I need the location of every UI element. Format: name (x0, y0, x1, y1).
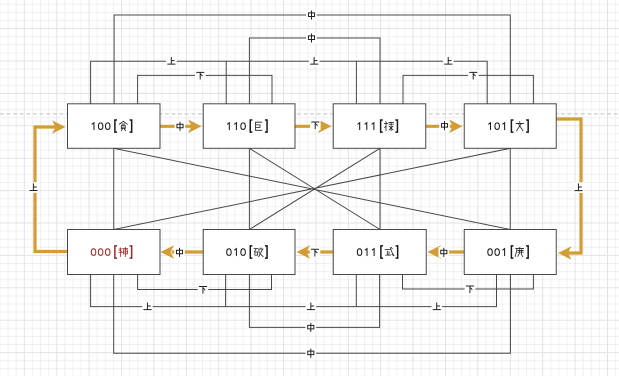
label 上 bottom c (432, 301, 443, 312)
vertical edge 100-000 (113, 148, 115, 229)
edge chain top (上) (91, 61, 488, 104)
label 中 orange 111->101 (439, 120, 450, 131)
label 中 top edge2 (306, 33, 317, 44)
state box 100 (68, 104, 161, 149)
label 上 bottom a (142, 301, 153, 312)
label 上 orange left (28, 182, 39, 193)
vertical edge 111-011 (379, 148, 381, 229)
state box 000 (68, 230, 161, 275)
edge 100-110 top (下) (138, 75, 272, 103)
label 下 orange 110->111 (310, 120, 321, 131)
label 上 top b (309, 56, 320, 67)
vertical edge 110-010 (248, 148, 250, 229)
label 中 orange 010->000 (174, 247, 185, 258)
vertical edge 101-001 (509, 148, 511, 229)
diagonal 100-001 (114, 148, 511, 229)
diagonal 110-011 (249, 148, 380, 229)
edge chain bottom (上) (91, 275, 497, 307)
label 下 bottom a (198, 284, 209, 295)
state box 101 (464, 104, 556, 149)
junction vertical 011 bottom (上) (355, 275, 357, 307)
label 中 orange 001->011 (439, 247, 450, 258)
edge 010-011 bottom (中) (249, 275, 379, 328)
orange arrow 100->110 (中) (160, 125, 193, 128)
edge 000-001 bottom (中) (114, 275, 511, 354)
state box 011 (333, 230, 426, 275)
page boundary dashed line (0, 113, 619, 115)
label 下 top b (468, 70, 479, 81)
label 中 orange 100->110 (175, 121, 186, 132)
orange arrow 110->111 (下) (295, 125, 323, 128)
label 中 bottom edge1 (306, 322, 317, 333)
diagonal 101-000 (114, 148, 511, 229)
label 下 orange 011->010 (310, 247, 321, 258)
orange arrow 010->000 (中) (172, 250, 204, 253)
label 下 top a (195, 70, 206, 81)
label 上 top a (166, 56, 177, 67)
orange arrow 001->011 (中) (438, 250, 465, 253)
junction vertical 010 bottom (上) (225, 275, 227, 307)
edge 111-101 top (下) (403, 75, 533, 103)
edge 000-010 bottom (下) (138, 275, 272, 290)
label 上 top c (443, 56, 454, 67)
orange arrow 111->101 (中) (426, 125, 454, 128)
label 中 top edge1 (306, 10, 317, 21)
edge 100-101 top (中) (114, 15, 510, 104)
state box 010 (203, 230, 295, 275)
state box 111 (333, 104, 426, 149)
edge 011-001 bottom (下) (403, 275, 534, 290)
label 上 bottom b (306, 301, 317, 312)
label 中 bottom edge2 (306, 348, 317, 359)
diagonal 111-010 (249, 148, 380, 229)
state box 001 (464, 230, 556, 275)
junction vertical 111 (上) (355, 61, 357, 104)
orange arrow 011->010 (下) (307, 250, 334, 253)
label 上 orange right (573, 182, 584, 193)
state box 110 (203, 104, 295, 149)
orange arrow 000->100 left side (上) (35, 127, 68, 252)
junction vertical 110 (上) (225, 61, 227, 104)
edge 110-111 top (中) (249, 38, 380, 104)
label 下 bottom b (465, 284, 476, 295)
orange arrow 101->001 right side (上) (556, 119, 581, 253)
